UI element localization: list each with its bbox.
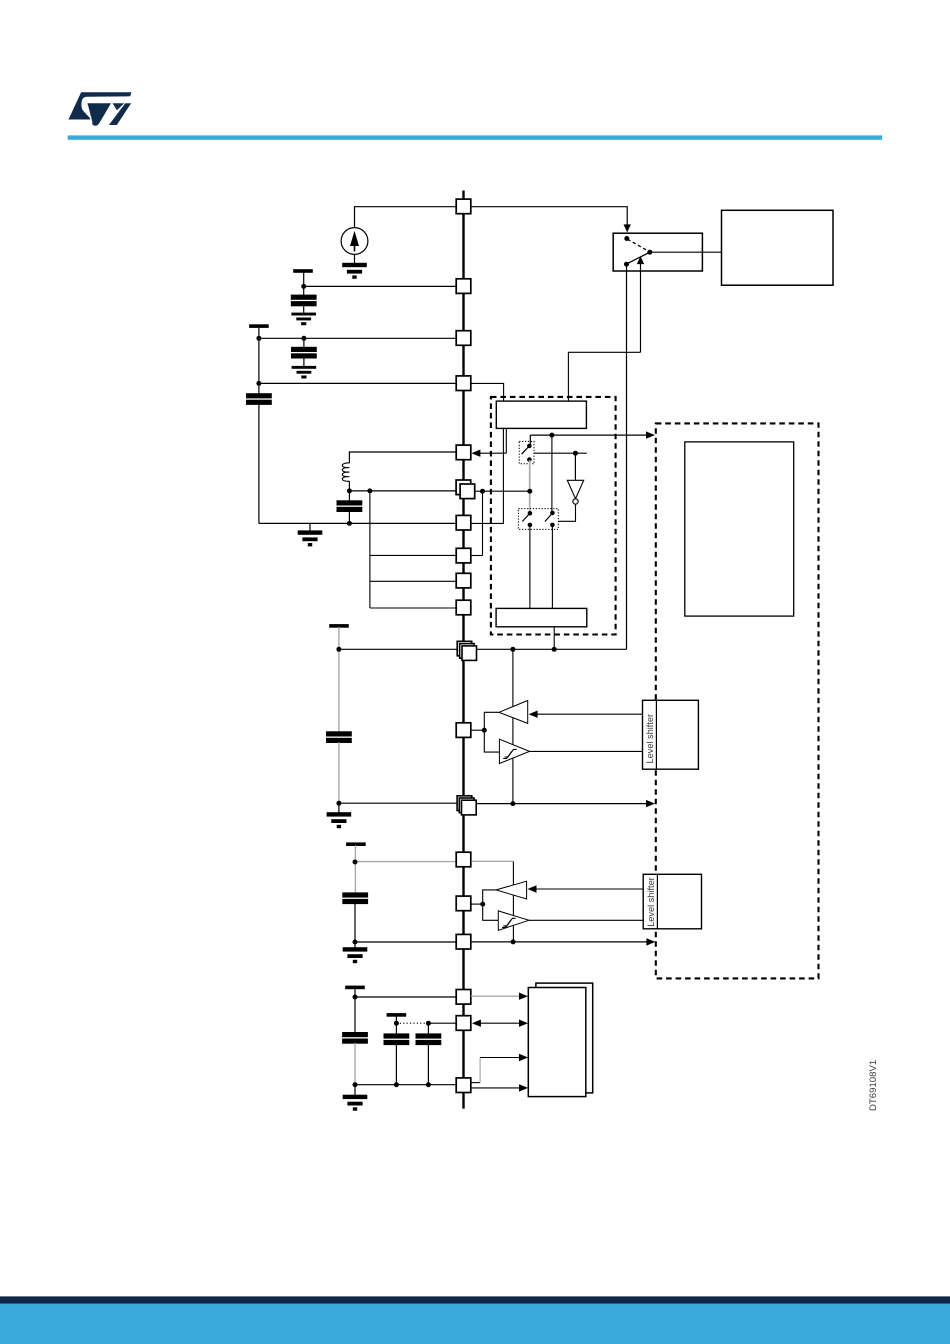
pin 18	[456, 1016, 471, 1031]
gray lead C4 bottom	[338, 742, 340, 803]
node C3 bottom	[347, 521, 352, 526]
pin 3	[456, 331, 471, 346]
footer navy bar	[0, 1296, 950, 1303]
capacitor C6	[343, 997, 368, 1043]
node driver stub	[552, 627, 557, 652]
supply tick above C4	[330, 625, 348, 627]
wire schmitt2 input link	[483, 904, 499, 920]
node pin16 net	[511, 939, 516, 944]
wire boot vertical	[512, 862, 514, 942]
node pin14	[353, 860, 358, 865]
supply tick above C7	[387, 1014, 405, 1024]
current source I1	[341, 228, 368, 264]
supply tick above C1	[294, 270, 312, 295]
dotted link C7 C8	[396, 1022, 428, 1024]
header rule	[68, 135, 883, 139]
wire buffer2 apex link	[483, 890, 496, 904]
node C6 bottom	[353, 1082, 358, 1087]
node C7 bottom	[394, 1082, 399, 1087]
capacitor C0 on left rail	[247, 394, 272, 405]
wire S3 left to driver	[529, 525, 531, 608]
wire pin1 to current source	[355, 207, 457, 228]
capacitor C1	[291, 295, 316, 313]
supply tick above C5	[347, 843, 365, 845]
capacitor C8	[416, 1023, 441, 1084]
ground stub on pin7 line	[298, 523, 321, 545]
pin 12	[456, 723, 471, 738]
node C5 bottom	[353, 940, 358, 945]
wire inverter input	[534, 451, 587, 481]
switch S2 lever and dots	[522, 444, 532, 462]
wire pin7 line	[259, 522, 456, 524]
wire pin12 to buffers	[471, 729, 485, 731]
wire pin1 to mode switch	[471, 207, 631, 233]
node pin11	[336, 647, 341, 652]
pin 19	[456, 1078, 471, 1093]
node pin15	[480, 902, 485, 907]
switch SW1 lever	[627, 252, 650, 264]
wire pin17 to interface gray	[471, 993, 528, 1000]
switch SW1 throw A dashed	[628, 239, 650, 251]
mode switch box SW1	[613, 233, 702, 271]
wire pin10 left	[370, 607, 456, 609]
pin 1	[456, 199, 471, 214]
level shifter box LS2	[643, 874, 701, 929]
wire schmitt1 out to LS1	[530, 750, 643, 752]
gray jog pin19	[479, 1058, 481, 1083]
wire select jog to logic block	[568, 352, 640, 401]
wire schmitt2 out to LS2	[529, 919, 643, 921]
switch SW1 contact dots	[624, 236, 652, 267]
schmitt trigger S2	[498, 911, 529, 930]
node left rail pin4	[256, 381, 261, 386]
ground below C4	[327, 803, 350, 827]
node C8 top	[426, 1021, 431, 1026]
main vertical bus wire	[462, 191, 464, 1109]
power stage dashed box	[656, 423, 819, 978]
inductor L1	[342, 463, 349, 491]
pin 8	[456, 548, 471, 563]
wire pin4 to logic block top	[471, 383, 504, 401]
wire pin18 interface bidirectional	[472, 1020, 528, 1027]
left rail wire	[258, 327, 260, 523]
ground below current source	[343, 263, 366, 278]
level shifter box LS1	[643, 700, 699, 769]
capacitor C4	[327, 732, 352, 743]
node C4 bottom	[336, 801, 341, 806]
pin 11 stacked	[457, 641, 476, 660]
label LS1	[645, 714, 655, 764]
node C1 top	[301, 284, 306, 289]
pin 4	[456, 376, 471, 391]
wire schmitt1 input link	[484, 730, 499, 752]
wire pin19 line	[355, 1084, 456, 1086]
wire pin19 to interface lower	[471, 1084, 528, 1091]
wire driver feed vertical	[551, 435, 554, 608]
wire pin19 to interface upper	[480, 1054, 528, 1061]
wire pin16 to gate block	[471, 938, 656, 945]
wire pin19 stub	[471, 1082, 480, 1084]
node inductor bottom	[347, 488, 352, 493]
pin 5	[456, 445, 471, 460]
wire pin14 gray line	[355, 861, 457, 863]
wire pin6 line left	[349, 490, 456, 492]
wire pin14 right gray	[471, 860, 513, 862]
arrow into buffer B2	[528, 885, 537, 892]
footer blue bar	[0, 1304, 950, 1344]
wire pin5 to inductor	[349, 452, 456, 463]
node pin12	[482, 728, 487, 733]
node pin13 net	[510, 801, 515, 806]
capacitor C3 below inductor	[337, 491, 362, 524]
gray lead C6 bottom	[354, 1043, 356, 1085]
node driver feed	[549, 433, 554, 438]
gray link S2 to S3	[529, 460, 531, 513]
internal switch S3 dotted box	[518, 509, 558, 530]
pin 17	[456, 990, 471, 1005]
wire pin11 line right	[477, 648, 627, 650]
interface block stacked	[528, 983, 592, 1097]
wire switch common to control box	[650, 251, 722, 253]
capacitor C5	[343, 893, 368, 904]
schmitt trigger S1	[499, 739, 529, 763]
gray lead C4	[338, 627, 340, 732]
ground below C1	[292, 313, 315, 324]
wire pin6 net down to pin8	[482, 491, 484, 555]
ST logo	[69, 92, 132, 126]
ground below C5	[343, 942, 366, 963]
label LS2	[646, 877, 656, 927]
wire LS1 to buffer B1	[537, 713, 643, 715]
wire switch throw B down to y649 rail	[626, 264, 628, 649]
internal switch S2 dotted box	[519, 441, 534, 463]
wire inverter out to S3	[558, 504, 575, 521]
wire pin2 line	[304, 285, 457, 287]
capacitor C2	[292, 338, 317, 366]
wire pin7 to logic block	[471, 428, 504, 523]
capacitor C7	[384, 1023, 409, 1084]
wire pin6 to switch net	[475, 490, 530, 492]
svg-text:Level shifter: Level shifter	[646, 877, 656, 927]
power stage inner block	[685, 442, 794, 616]
driver block (bottom rect)	[496, 608, 587, 626]
svg-text:Level shifter: Level shifter	[645, 714, 655, 764]
supply tick above C6	[346, 986, 364, 997]
node vreg drop	[510, 647, 515, 652]
wire vertical pins 8 9 10	[369, 491, 371, 608]
node feed vertical	[367, 488, 372, 493]
wire pin15 to buffers	[471, 903, 483, 905]
arrow into pin5	[471, 450, 506, 457]
node pin6 net on gray link	[527, 489, 532, 494]
lead C5 bottom	[354, 903, 356, 942]
wire pin8 left	[370, 554, 456, 556]
switch S3 levers and dots	[522, 511, 554, 528]
pin 13 stacked	[457, 796, 476, 815]
node C2 top	[301, 336, 306, 341]
inverter U2	[567, 480, 583, 504]
svg-text:DT69108V1: DT69108V1	[868, 1060, 879, 1111]
wire pin4 line	[259, 382, 456, 384]
buffer B1	[499, 701, 528, 724]
wire vreg vertical	[512, 649, 514, 803]
wire pin18 line	[428, 1022, 456, 1024]
pin 2	[456, 279, 471, 294]
wire buffer1 apex link	[484, 712, 499, 730]
pin 9	[456, 573, 471, 588]
switch SW1 select arrow	[637, 256, 644, 352]
node pin17	[353, 995, 358, 1000]
wire pin3 line	[259, 337, 456, 339]
buffer B2	[496, 881, 527, 899]
control logic dashed box	[491, 397, 616, 635]
ground below C6	[343, 1085, 366, 1110]
pin 6 stacked	[456, 480, 475, 499]
gray lead C5 top	[354, 845, 356, 893]
wire logic out to right block	[530, 431, 655, 438]
logic block (top rect)	[496, 401, 586, 428]
control box (top right)	[722, 210, 834, 285]
wire pin16 line left	[355, 941, 456, 943]
ground below C2	[292, 367, 315, 378]
pin 14	[456, 852, 471, 867]
pin 15	[456, 896, 471, 911]
node left rail pin3	[256, 336, 261, 341]
node C8 bottom	[426, 1082, 431, 1087]
wire pin17 line	[355, 996, 456, 998]
wire LS2 to buffer B2	[535, 888, 643, 890]
left rail supply tick	[250, 325, 268, 327]
wire logic to pin5 lead	[505, 428, 507, 453]
wire pin8 right	[471, 555, 483, 557]
wire pin11 line left	[339, 648, 457, 650]
wire top switch feed	[529, 435, 531, 446]
wire pin9 left	[370, 580, 456, 582]
pin 16	[456, 934, 471, 949]
node pin6 right	[480, 489, 485, 494]
wire pin13 line left	[339, 802, 457, 804]
node C7 top	[394, 1021, 399, 1026]
arrow into buffer B1	[529, 711, 538, 718]
pin 7	[456, 515, 471, 530]
wire pin13 to gate block	[476, 800, 655, 807]
pin 10	[456, 600, 471, 615]
